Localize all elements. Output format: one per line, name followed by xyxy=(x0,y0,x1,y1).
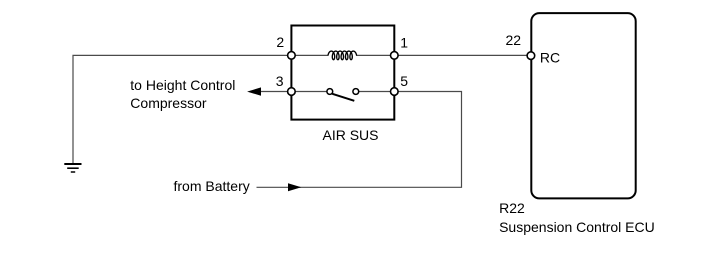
arrow to compressor xyxy=(247,87,261,95)
svg-text:1: 1 xyxy=(400,35,408,51)
svg-text:22: 22 xyxy=(506,32,522,48)
pin 1 terminal xyxy=(391,52,399,60)
svg-text:AIR SUS: AIR SUS xyxy=(322,127,378,143)
wire pin1-to-pin22 xyxy=(394,54,528,56)
svg-text:3: 3 xyxy=(276,73,284,89)
svg-text:RC: RC xyxy=(540,50,560,66)
ECU box xyxy=(531,13,635,198)
pin 2 terminal xyxy=(288,52,296,60)
ground xyxy=(64,164,81,172)
wire switch-to-pin5 xyxy=(359,91,395,93)
wire arrow-to-pin3 xyxy=(250,91,327,93)
wire pin5-to-battery xyxy=(257,92,462,188)
relay box AIR SUS xyxy=(291,26,394,120)
svg-text:Suspension Control ECU: Suspension Control ECU xyxy=(499,219,655,235)
pin 3 terminal xyxy=(288,88,296,96)
switch contact left xyxy=(327,89,333,95)
wire ground-to-pin2 xyxy=(73,55,291,163)
svg-text:2: 2 xyxy=(276,34,284,50)
arrow from battery xyxy=(288,183,301,191)
wire coil-to-pin1 xyxy=(356,54,394,56)
switch contact right xyxy=(353,89,359,95)
relay coil xyxy=(328,51,357,60)
switch blade xyxy=(332,94,354,101)
svg-text:to Height Control: to Height Control xyxy=(130,77,235,93)
svg-text:R22: R22 xyxy=(499,200,525,216)
pin 5 terminal xyxy=(391,88,399,96)
svg-text:Compressor: Compressor xyxy=(130,95,207,111)
svg-text:from Battery: from Battery xyxy=(174,178,250,194)
wire pin2-to-coil xyxy=(291,54,329,56)
pin 22 terminal xyxy=(527,52,535,60)
svg-text:5: 5 xyxy=(400,73,408,89)
